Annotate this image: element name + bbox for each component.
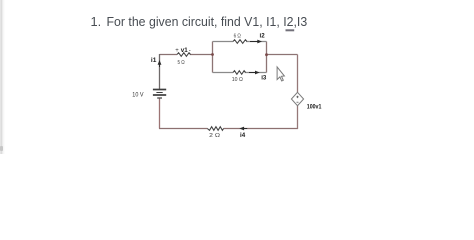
svg-text:For the given circuit, find V1: For the given circuit, find V1, I1, I2,I… — [107, 14, 308, 29]
svg-text:i1: i1 — [151, 57, 157, 64]
wire: bottom horizontal — [159, 128, 298, 130]
svg-text:5 Ω: 5 Ω — [178, 60, 186, 66]
battery V1 10V — [153, 90, 166, 99]
wire: left vertical upper (corner down to battery) — [159, 54, 161, 89]
mouse cursor — [277, 67, 284, 81]
current arrow i3 — [249, 72, 256, 74]
resistor 5-ohm — [177, 53, 191, 57]
svg-text:2 Ω: 2 Ω — [209, 133, 220, 139]
svg-text:i3: i3 — [261, 75, 267, 82]
svg-text:+: + — [175, 48, 179, 54]
svg-text:6 Ω: 6 Ω — [234, 34, 242, 40]
wire: box top edge (leads of 6-ohm) — [213, 41, 267, 43]
wire: left vertical lower (battery to bottom corner) — [159, 99, 161, 129]
wire: right vertical lower (diamond to bottom corner) — [297, 106, 299, 129]
svg-text:v1: v1 — [181, 47, 188, 54]
svg-text:100v1: 100v1 — [307, 104, 322, 110]
wire: top-left horizontal (corner to 5-ohm to box left) — [160, 54, 213, 56]
svg-text:i2: i2 — [260, 32, 266, 39]
wire: mid horizontal box-right to right corner — [267, 54, 298, 56]
svg-text:-: - — [189, 48, 191, 54]
node A: junction dot left of box — [211, 53, 214, 56]
underline under I2, — [286, 29, 295, 31]
resistor 2-ohm — [207, 127, 223, 131]
current arrow i1 (pointing up, on left wire) — [159, 64, 161, 67]
left page edge shadow — [0, 0, 5, 154]
wire: box right edge — [266, 42, 268, 73]
current arrow i4 (pointing left) — [243, 128, 247, 130]
dependent source 100v1 (diamond) — [291, 92, 303, 105]
wire: box left edge — [212, 42, 214, 73]
node B: junction dot right of box — [265, 53, 268, 56]
wire: right vertical upper (corner to diamond) — [297, 55, 299, 93]
wire: box bottom edge (leads of 10-ohm) — [213, 72, 267, 74]
resistor 10-ohm — [233, 71, 246, 75]
svg-text:i4: i4 — [240, 132, 246, 139]
resistor 6-ohm — [233, 40, 247, 44]
svg-text:10 V: 10 V — [132, 91, 144, 98]
current arrow i2 — [250, 41, 258, 43]
svg-text:1.: 1. — [91, 14, 102, 29]
title text — [91, 14, 308, 29]
svg-text:10 Ω: 10 Ω — [232, 77, 244, 83]
